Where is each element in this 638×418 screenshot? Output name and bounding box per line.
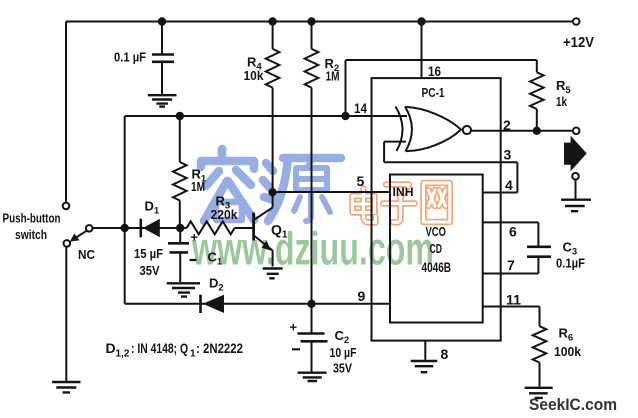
svg-text:10k: 10k: [244, 68, 265, 83]
svg-text:11: 11: [506, 292, 521, 308]
svg-text:1k: 1k: [556, 94, 568, 109]
svg-text:8: 8: [441, 346, 449, 362]
svg-text:+: +: [290, 320, 298, 335]
svg-text:switch: switch: [15, 228, 47, 242]
svg-text:0.1µF: 0.1µF: [556, 256, 585, 271]
svg-text:35V: 35V: [333, 361, 352, 376]
svg-text:6: 6: [509, 224, 517, 240]
svg-text:1,2: 1,2: [116, 349, 130, 360]
svg-text:PC-1: PC-1: [422, 85, 445, 100]
svg-text:9: 9: [358, 288, 366, 304]
svg-text:SeekIC.com: SeekIC.com: [529, 395, 617, 414]
svg-text:15 µF: 15 µF: [134, 246, 163, 261]
svg-text:: 2N2222: : 2N2222: [196, 340, 243, 356]
svg-text:14: 14: [354, 100, 367, 116]
svg-text:NC: NC: [78, 247, 96, 262]
svg-text:100k: 100k: [554, 344, 582, 359]
svg-text:: IN 4148; Q: : IN 4148; Q: [131, 340, 188, 356]
svg-text:1M: 1M: [191, 179, 205, 194]
svg-text:220k: 220k: [211, 207, 239, 222]
svg-text:3: 3: [504, 147, 512, 163]
svg-text:+: +: [191, 230, 199, 245]
svg-text:35V: 35V: [140, 263, 160, 278]
svg-text:4046B: 4046B: [422, 259, 452, 275]
svg-text:4: 4: [505, 177, 513, 193]
svg-text:CD: CD: [430, 241, 443, 256]
svg-text:0.1 µF: 0.1 µF: [114, 50, 146, 65]
svg-text:Push-button: Push-button: [3, 212, 61, 226]
svg-text:10 µF: 10 µF: [330, 345, 357, 360]
svg-text:2: 2: [503, 117, 511, 133]
svg-text:D: D: [106, 340, 116, 356]
svg-text:INH: INH: [393, 185, 414, 199]
svg-text:7: 7: [507, 257, 515, 273]
svg-text:VCO: VCO: [426, 224, 447, 239]
svg-text:+12V: +12V: [563, 34, 594, 51]
svg-text:1M: 1M: [326, 69, 340, 84]
svg-text:16: 16: [428, 63, 441, 79]
svg-text:5: 5: [357, 173, 365, 189]
